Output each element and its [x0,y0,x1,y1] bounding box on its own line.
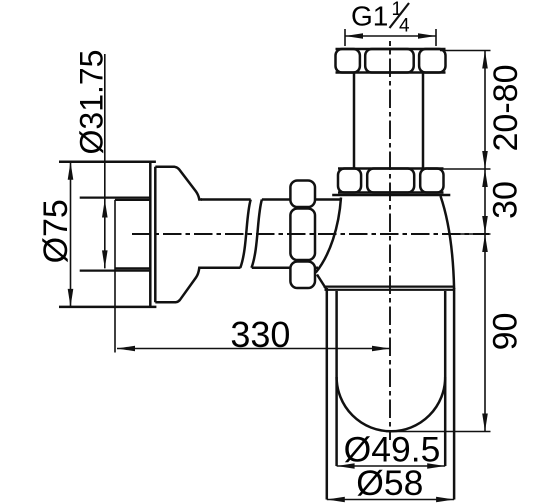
dimension 31.75 line [104,54,106,268]
dimension 75 line [70,162,72,307]
trap body top edge [332,194,450,197]
outlet pipe bottom edge segments [201,267,318,270]
wall sleeve top edge [80,197,151,199]
lower hex nut N2 [338,169,444,193]
cone adapter bottom [155,268,202,302]
dimension 330 line [117,348,390,350]
wall sleeve bottom edge [80,270,151,272]
svg-text:330: 330 [230,314,290,355]
svg-text:Ø75: Ø75 [37,199,75,263]
label G1 1/4 fraction slash [390,3,410,28]
svg-text:Ø31.75: Ø31.75 [74,50,110,155]
outlet pipe top edge segments [201,198,341,201]
trap body left fillet arc [316,198,341,273]
horizontal centerline of outlet pipe [132,233,489,235]
pipe edges through flange [115,200,150,268]
pipe break squiggle right [252,200,262,268]
right dimension extension lines [386,51,491,432]
svg-text:30: 30 [487,181,525,219]
pipe break squiggle left [240,200,250,268]
trap body lower-left slant [317,275,328,292]
top hex nut N1 [336,49,446,73]
inner dome bottom [337,377,446,431]
dimension 58 line [327,499,454,501]
dimension 31.75 arrows [102,200,108,269]
telescopic tube [354,74,423,169]
dimension 49.5 arrows [337,463,446,469]
flange face / 330 extension line [114,200,116,353]
right dimension arrows [482,51,488,432]
dimension 75 arrows [68,162,74,307]
dimension 49.5 line [337,465,446,467]
cup outer walls [327,288,454,500]
svg-text:4: 4 [399,16,410,37]
svg-text:Ø58: Ø58 [356,463,423,503]
wall flange right face double line [150,162,155,307]
wall flange disc bottom edge [59,306,156,309]
cup inner walls / extension lines [337,291,446,466]
label G1 1/4 [351,0,410,37]
svg-text:20-80: 20-80 [487,65,525,152]
svg-text:G1: G1 [351,1,388,32]
wall flange disc top edge [59,161,156,164]
cup joint inner line [325,289,455,291]
dimension G1 1/4 arrows [345,33,436,39]
trap body right shoulder [441,196,455,289]
union nut N3 on outlet pipe [290,181,315,289]
vertical centerline of trap [389,41,391,440]
dimension 58 arrows [327,497,454,503]
dimension G1 1/4 line [345,29,436,46]
svg-text:90: 90 [487,313,525,351]
dimension 330 arrows [117,346,390,352]
cone adapter top [155,167,202,200]
cup joint line [324,286,455,288]
